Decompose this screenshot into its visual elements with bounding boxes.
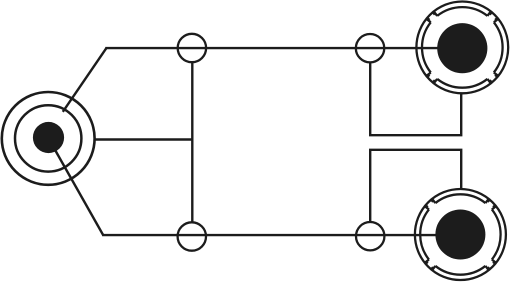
wire: junction C down, right and up to RCA P1 shell	[370, 63, 461, 135]
wire: bottom horizontal bus from corner through junctions B,D to RCA P2 pin	[102, 234, 438, 236]
wire: top horizontal bus from corner through junctions A,C to RCA P1 pin	[105, 47, 439, 49]
3.5mm jack plug J1: tip contact (filled disc)	[33, 122, 64, 153]
junction terminal C (top right): open circle	[356, 34, 384, 62]
junction terminal A (top left): open circle	[178, 34, 206, 62]
wire: jack tip contact to bottom bus corner (diagonal)	[50, 141, 103, 235]
wire: jack sleeve to left vertical (middle horizontal)	[94, 138, 193, 140]
RCA connector P1 (top right): notched collar ring	[422, 7, 503, 88]
junction terminal D (bottom right): open circle	[356, 222, 384, 250]
RCA connector P1 (top right): center pin contact (filled disc)	[437, 23, 487, 73]
3.5mm jack plug J1: ring contact circle	[15, 105, 81, 171]
RCA connector P2 (bottom right): outer shell circle	[415, 189, 506, 280]
wire: left vertical between junction A and junction B	[191, 63, 193, 222]
RCA connector P2 (bottom right): collar notch ticks	[426, 200, 494, 268]
RCA connector P1 (top right): outer shell circle	[416, 2, 508, 94]
wire: jack ring contact to top bus corner (diagonal)	[63, 48, 107, 112]
3.5mm jack plug J1: outer sleeve circle	[2, 92, 95, 185]
RCA connector P2 (bottom right): center pin contact (filled disc)	[435, 210, 485, 260]
RCA connector P1 (top right): collar notch ticks	[428, 13, 497, 82]
RCA connector P2 (bottom right): notched collar ring	[420, 194, 500, 274]
junction terminal B (bottom left): open circle	[178, 222, 206, 250]
wire: junction D up, right and down to RCA P2 shell	[370, 150, 461, 222]
